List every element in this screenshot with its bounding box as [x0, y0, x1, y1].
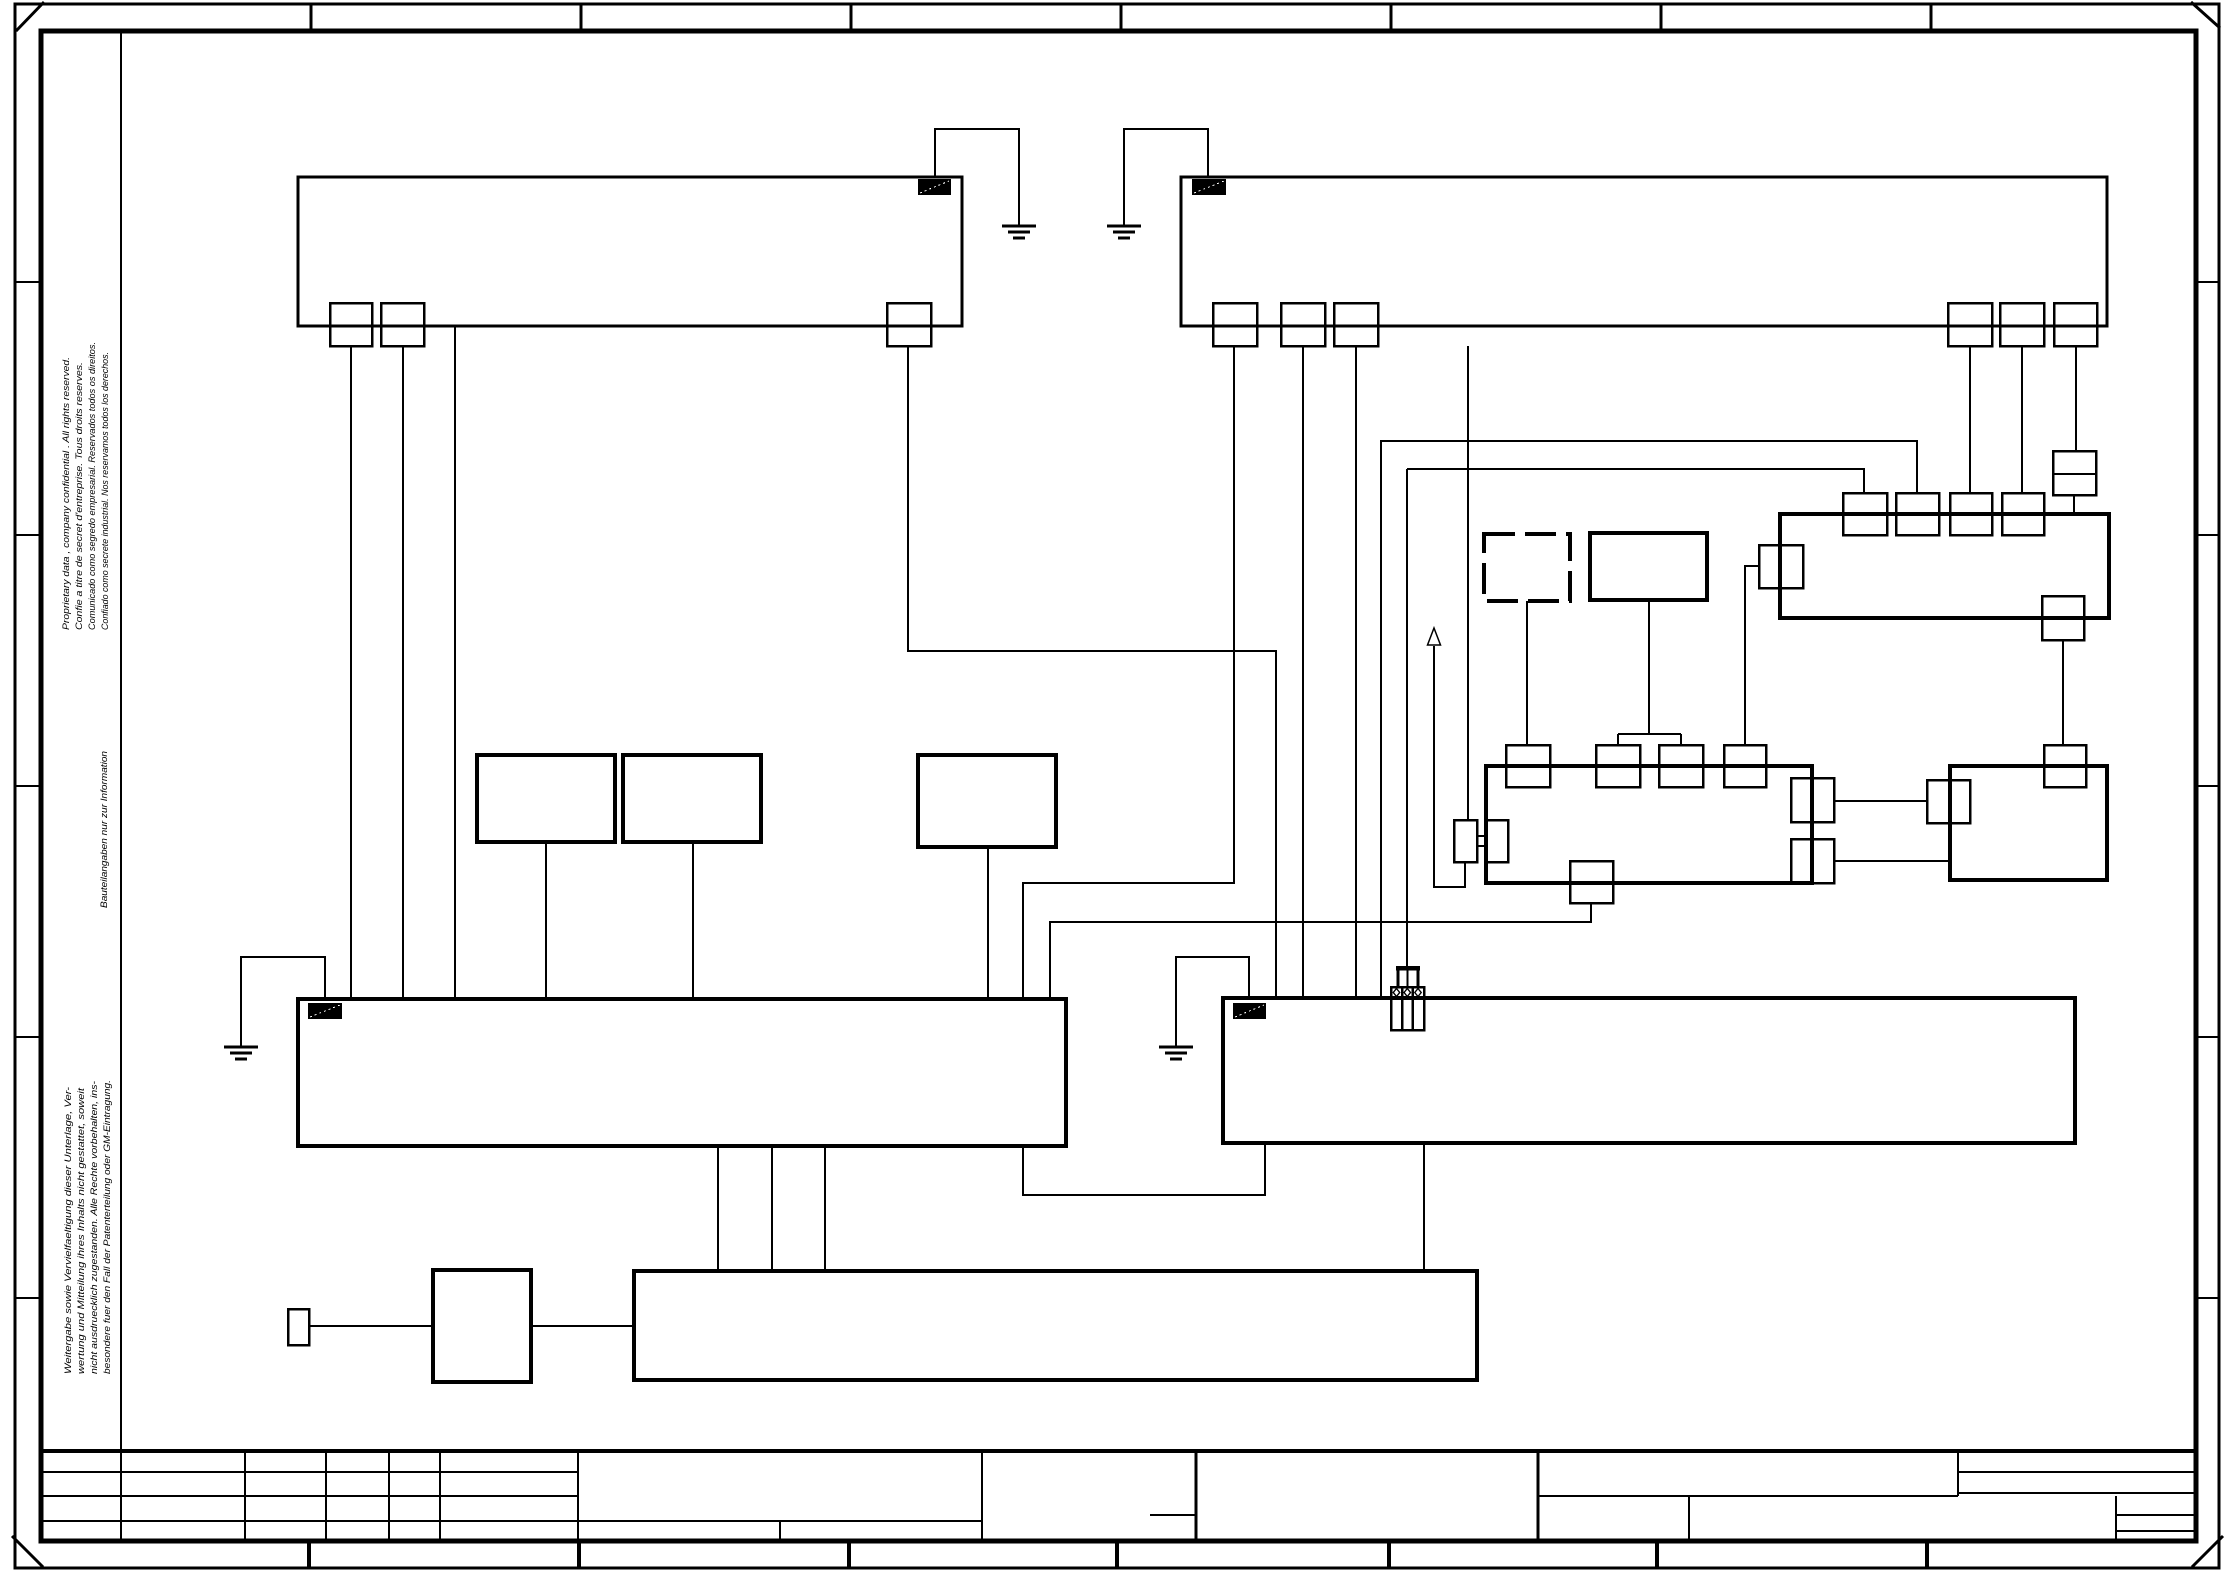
wire D right lower to G [1834, 860, 1950, 862]
bottom border ticks [309, 1543, 1927, 1568]
wire C bottom to J 2 [771, 1146, 773, 1271]
pin G left upper [1927, 780, 1970, 823]
wire box E to pins D2 D3 [1618, 600, 1681, 745]
svg-text:Confie a titre de secret: Confie a titre de secret d'entreprise. T… [74, 362, 85, 630]
relay box S2 [623, 755, 761, 842]
relay box S1 [477, 755, 615, 842]
svg-text:Proprietary data , company: Proprietary data , company confidential … [61, 357, 72, 630]
svg-text:nicht ausdruecklich zugestand: nicht ausdruecklich zugestanden. Alle Re… [89, 1081, 100, 1374]
pin D right lower [1791, 839, 1834, 883]
right border ticks [2196, 282, 2219, 1298]
connector marker on box H [1233, 1003, 1266, 1019]
connector marker on box A [918, 179, 951, 195]
arrow head symbol [1428, 628, 1441, 645]
pin F bottom [2042, 596, 2084, 640]
svg-text:Comunicado como segredo empre: Comunicado como segredo empresarial. Res… [87, 342, 98, 630]
long box J [634, 1271, 1477, 1380]
svg-text:Confiado como secrete industri: Confiado como secrete industrial. Nos re… [100, 352, 111, 630]
U-link box C bottom to box H bottom [1023, 1143, 1265, 1195]
wire pin A3 to box H top [908, 346, 1276, 998]
wire pin B4 to pin F3 [1969, 346, 1971, 493]
wire W2 net: F pin1, fork, box C, box D bottom pin [1050, 469, 1864, 999]
pin B5 [2000, 303, 2044, 346]
wire box C marker to ground [241, 957, 325, 1046]
ground symbol 4 [224, 1047, 258, 1059]
wire S1 to box C [545, 842, 547, 999]
wire W1 to F pin2 and box H [1381, 441, 1917, 998]
wire S2 to box C [692, 842, 694, 999]
corner trim mark bottom-left [12, 1536, 43, 1567]
pin B2 [1281, 303, 1325, 346]
ground symbol 3 [1159, 1047, 1193, 1059]
svg-text:besondere fuer den Fall der Pa: besondere fuer den Fall der Patenterteil… [102, 1080, 113, 1374]
ground symbol 1 [1002, 226, 1036, 238]
connector link lines [1477, 835, 1486, 837]
wire from arrow to connector [1434, 646, 1465, 887]
pin D3 [1659, 745, 1703, 787]
wire D right upper to G [1834, 800, 1927, 802]
wire C bottom to J 3 [824, 1146, 826, 1271]
main box C [298, 999, 1066, 1146]
fuse element [2053, 451, 2096, 495]
ECU box A [298, 177, 962, 326]
outer connector at box D left [1454, 820, 1477, 862]
wire box H marker to ground [1176, 957, 1249, 1046]
left margin rotated notice text: proprietary block [61, 342, 111, 630]
left margin rotated notice text: Weitergabe block [63, 1080, 113, 1374]
ECU box B [1181, 177, 2107, 326]
wire pin D4 to F left pin [1745, 566, 1759, 745]
wire box B marker to ground [1124, 129, 1208, 225]
wire fuse to box F [2073, 495, 2075, 514]
wire box A bottom to box C [454, 327, 456, 999]
relay box S3 [918, 755, 1056, 847]
wire pin B half to connector top [1467, 346, 1469, 820]
pin D bottom [1570, 861, 1613, 903]
pin B6 [2054, 303, 2097, 346]
wire H bottom to J [1423, 1143, 1425, 1271]
left border ticks [15, 282, 41, 1298]
pin A2 [381, 303, 424, 346]
box G [1950, 766, 2107, 880]
pin D right upper [1791, 778, 1834, 822]
svg-text:wertung und Mitteilung ihres: wertung und Mitteilung ihres Inhalts nic… [76, 1088, 87, 1374]
wire S3 to box C [987, 847, 989, 999]
pin B4 [1948, 303, 1992, 346]
pin G top [2044, 745, 2086, 787]
box E [1590, 533, 1707, 600]
top border ticks [311, 4, 1931, 31]
svg-text:Weitergabe sowie Vervielfael: Weitergabe sowie Vervielfaeltigung diese… [63, 1087, 74, 1374]
inner pin at box D left [1486, 820, 1508, 862]
wire dashed box to pin D1 [1526, 601, 1528, 745]
wire pin B3 to box H [1355, 346, 1357, 998]
pin F4 [2002, 493, 2044, 535]
wire pin A2 to box C [402, 346, 404, 999]
pin A1 [330, 303, 372, 346]
box D [1486, 766, 1812, 883]
pin F1 [1843, 493, 1887, 535]
svg-text:Bauteilangaben nur zur Informa: Bauteilangaben nur zur Information [99, 751, 110, 908]
box F [1780, 514, 2109, 618]
wire pin A1 to box C [350, 346, 352, 999]
wire C bottom to J 1 [717, 1146, 719, 1271]
box K [433, 1270, 531, 1382]
wire pin B1 to box C top [1023, 346, 1234, 999]
corner trim mark top-left [16, 2, 44, 31]
pin D1 [1506, 745, 1550, 787]
wire box A marker to ground [935, 129, 1019, 225]
pin D2 [1596, 745, 1640, 787]
pin B3 [1334, 303, 1378, 346]
pin F2 [1896, 493, 1939, 535]
dashed box [1484, 534, 1570, 601]
connector marker on box C [308, 1003, 342, 1019]
wire L to K [309, 1325, 433, 1327]
pin D4 [1724, 745, 1766, 787]
connector marker on box B [1192, 179, 1226, 195]
wire pin B6 to fuse [2075, 346, 2077, 451]
corner trim mark bottom-right [2192, 1536, 2223, 1567]
main box H [1223, 998, 2075, 1143]
left column separator line [120, 31, 122, 1451]
pin A3 [887, 303, 931, 346]
pin F left [1759, 545, 1803, 588]
small connector L [288, 1309, 309, 1345]
corner trim mark top-right [2191, 2, 2220, 28]
ground symbol 2 [1107, 226, 1141, 238]
wire pin B2 to box H [1302, 346, 1304, 998]
fork connector on box H [1391, 966, 1424, 1030]
wire F bottom pin to G top pin [2062, 640, 2064, 745]
pin F3 [1950, 493, 1992, 535]
pin B1 [1213, 303, 1257, 346]
title block [41, 1451, 2196, 1541]
wire pin B5 to pin F4 [2021, 346, 2023, 493]
left margin rotated text: Bauteilangaben [99, 751, 110, 908]
wire K to J [531, 1325, 634, 1327]
